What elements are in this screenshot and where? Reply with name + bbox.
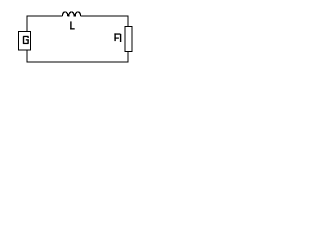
wire right upper segment [127, 16, 129, 27]
label R value [114, 33, 121, 42]
label L value [70, 21, 75, 29]
wire top-right segment [81, 15, 129, 17]
resistor R1 box [125, 27, 132, 52]
generator G1 box [19, 32, 31, 51]
wire right lower segment [127, 52, 129, 63]
wire left upper segment [26, 16, 28, 32]
generator G1 letter G [23, 36, 29, 44]
wire left lower segment [26, 50, 28, 63]
inductor L1 coil [62, 12, 80, 16]
wire top-left segment [27, 15, 63, 17]
wire bottom segment [27, 61, 129, 63]
